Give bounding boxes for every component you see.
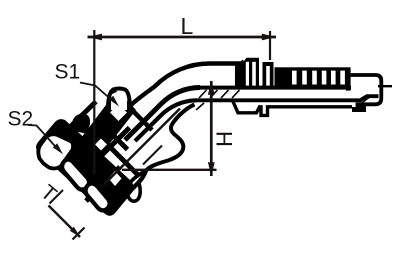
arrowhead H up — [208, 81, 215, 95]
arrowhead S2 — [53, 143, 63, 154]
end cap nipple tip — [351, 75, 382, 108]
barb slot 5 — [331, 71, 336, 85]
bore top thick line — [199, 86, 351, 90]
barb slot 1 — [292, 71, 297, 85]
white pocket S1 lower — [109, 171, 122, 186]
chamfer step at socket start — [241, 61, 244, 64]
elbow outer top contour — [125, 64, 243, 114]
body relief thin line — [143, 146, 162, 165]
S1 front face edge — [107, 129, 128, 150]
svg-text:S2: S2 — [8, 108, 34, 131]
arrowhead S1 — [109, 96, 119, 107]
crimp collar A — [235, 64, 244, 90]
nut lower silhouette ridge — [104, 170, 146, 210]
barb slot 6 — [340, 71, 345, 85]
S1 thread internal band — [95, 128, 130, 162]
nut lower internal line — [86, 167, 120, 201]
wire: T extension line upper — [50, 190, 64, 204]
S1 white diamond — [110, 104, 127, 121]
wire: L extension line right — [269, 31, 271, 60]
bore bottom line — [197, 96, 379, 100]
barb slot 3 — [312, 71, 317, 85]
S1 lower chamfer bulge — [127, 170, 146, 201]
arrowhead H down — [208, 162, 215, 176]
hex S1 black web — [81, 94, 136, 156]
svg-text:H: H — [212, 131, 237, 147]
collar A slot 2 — [252, 62, 256, 86]
dimension T line — [49, 206, 81, 238]
S1 hex upper ridge — [95, 110, 110, 126]
svg-text:S1: S1 — [55, 61, 81, 84]
elbow body flare S-contour — [146, 105, 195, 171]
barb band — [275, 67, 351, 89]
arrowhead T — [70, 227, 81, 238]
hatching group — [196, 90, 369, 110]
nut internal flat line — [71, 102, 96, 127]
centerline stub right — [378, 85, 392, 87]
nut middle flat chamfer pill — [62, 159, 89, 189]
wire: L extension line left — [93, 30, 95, 175]
shank top outer line — [210, 62, 242, 65]
nut lower flat chamfer pill — [85, 183, 109, 210]
collar A slot 1 — [246, 62, 249, 86]
nut back chamfer bump — [73, 115, 88, 131]
cap bottom foot — [352, 107, 366, 112]
S1 upper chamfer arch — [108, 89, 130, 113]
arrowhead L right — [262, 34, 276, 41]
crimp collar B — [263, 62, 274, 88]
elbow bore bottom contour — [135, 100, 197, 141]
dimension L line — [88, 36, 277, 39]
elbow bore top contour — [125, 88, 200, 141]
last barb bar — [346, 69, 351, 91]
barb slot 2 — [302, 71, 307, 85]
barb slot 4 — [322, 71, 327, 85]
dimension H line — [210, 81, 213, 176]
wire: T extension tick — [73, 228, 85, 240]
centerline of 45-deg port — [104, 109, 180, 185]
svg-text:L: L — [181, 13, 194, 39]
nut body black web — [36, 119, 134, 216]
leader S2 — [28, 125, 59, 151]
S1 arch interior white — [111, 92, 127, 110]
collar B slot — [266, 66, 270, 88]
nut upper flat chamfer pill — [38, 134, 73, 168]
white diamond gap nut back — [95, 139, 107, 151]
S2 back shoulder — [71, 135, 110, 174]
shank bottom outer contour with spanner notch — [233, 102, 352, 116]
wire: H extension line bottom — [122, 169, 217, 171]
leader S1 — [80, 83, 114, 103]
crimp collar A raised section — [244, 58, 260, 90]
S1 hex back shoulder — [111, 89, 152, 130]
arrowhead L left — [88, 34, 102, 41]
S1 lower front edge — [104, 141, 138, 175]
